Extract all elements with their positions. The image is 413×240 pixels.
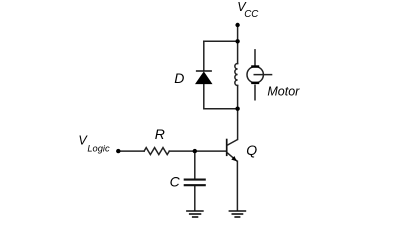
wire base junction to capacitor: [194, 151, 196, 179]
node VCC terminal: [235, 23, 239, 27]
wire VCC terminal to top junction: [237, 25, 239, 41]
node top junction: [235, 39, 239, 43]
node base junction: [193, 149, 197, 153]
wire capacitor to ground: [194, 185, 196, 210]
wire resistor to base junction: [169, 150, 195, 152]
svg-text:Q: Q: [246, 142, 257, 158]
svg-text:CC: CC: [244, 9, 259, 20]
wire VLogic to resistor: [118, 150, 144, 152]
node VLogic terminal: [116, 149, 120, 153]
wire diode branch lower: [204, 84, 238, 109]
svg-text:D: D: [174, 70, 184, 86]
svg-text:C: C: [170, 173, 181, 189]
ground left: [186, 211, 204, 217]
motor symbol: [247, 49, 272, 100]
wire emitter: [236, 161, 238, 210]
inductor motor-winding: [235, 64, 238, 86]
node bottom junction: [235, 107, 239, 111]
resistor R: [144, 148, 169, 155]
svg-text:R: R: [155, 126, 165, 142]
ground right: [229, 211, 247, 217]
diode D: [195, 71, 213, 84]
wire inductor to bottom junction: [237, 86, 239, 109]
wire diode branch upper: [203, 41, 205, 71]
svg-text:Logic: Logic: [87, 143, 110, 153]
svg-text:Motor: Motor: [267, 84, 300, 98]
wire collector: [237, 109, 239, 140]
wire top junction to diode top: [204, 40, 238, 42]
wire top junction to inductor: [237, 41, 239, 63]
transistor Q: [227, 139, 238, 162]
capacitor C: [184, 180, 206, 186]
wire base junction to base: [195, 150, 227, 152]
